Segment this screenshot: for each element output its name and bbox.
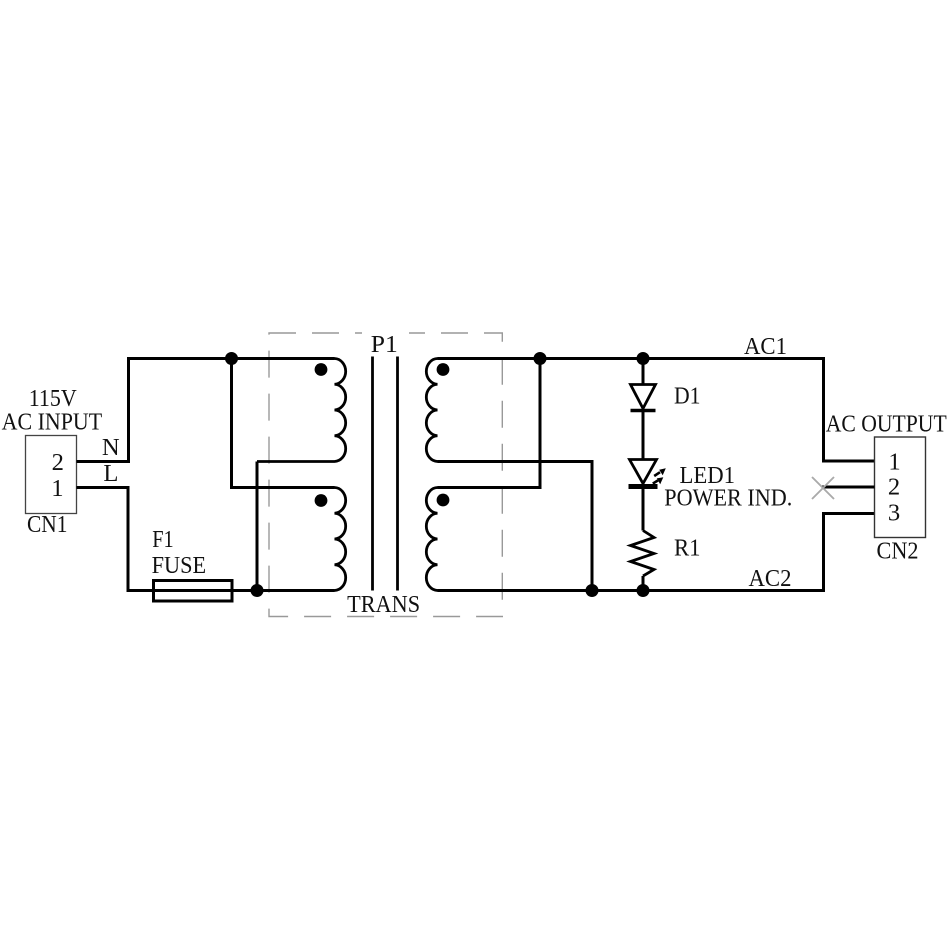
wire AC2 rail: lower secondary bottom lead to CN2 pin 3 <box>438 514 875 591</box>
diode D1 <box>631 385 656 411</box>
svg-text:P1: P1 <box>371 331 398 358</box>
svg-text:AC OUTPUT: AC OUTPUT <box>826 411 947 438</box>
wire: LED1 cathode to R1 <box>642 489 645 531</box>
wire: branch from N rail down to lower primary winding <box>232 359 335 488</box>
svg-text:N: N <box>102 434 120 461</box>
svg-text:CN1: CN1 <box>27 511 68 538</box>
wire: upper primary bottom lead down to fuse rail <box>256 462 259 591</box>
svg-text:AC INPUT: AC INPUT <box>2 409 103 436</box>
wire stub CN2 pin 2 (no connect) <box>822 486 875 489</box>
wire: D1 branch from AC1 <box>642 359 645 385</box>
svg-text:L: L <box>103 460 118 487</box>
junction R1 on AC2 <box>637 584 650 597</box>
phase dot lower primary <box>315 494 328 507</box>
phase dot upper secondary <box>437 363 450 376</box>
junction at fuse output <box>251 584 264 597</box>
wire N: CN1 pin 2 up to top rail and to primary winding <box>77 359 335 462</box>
wire: lower secondary top lead up to AC1 rail <box>438 359 541 488</box>
wire: R1 to AC2 rail <box>642 576 645 591</box>
junction D1 branch on AC1 <box>637 352 650 365</box>
transformer P1 lower secondary winding <box>426 488 437 591</box>
wire L: CN1 pin 1 down to fuse rail and to primary winding <box>77 488 335 591</box>
svg-text:2: 2 <box>888 474 900 501</box>
no-connect X mark on CN2 pin 2 <box>812 477 834 499</box>
transformer core line left <box>371 357 374 591</box>
transformer P1 dashed boundary box <box>269 326 502 617</box>
svg-text:F1: F1 <box>152 526 174 553</box>
connector CN1 <box>26 436 77 514</box>
svg-text:2: 2 <box>52 449 64 476</box>
junction lower secondary to AC1 <box>534 352 547 365</box>
svg-text:1: 1 <box>51 475 63 502</box>
wire AC1 rail: upper secondary top lead to CN2 pin 1 <box>438 359 875 462</box>
phase dot upper primary <box>315 363 328 376</box>
wire: D1 cathode to LED1 anode <box>642 411 645 460</box>
junction on N rail <box>225 352 238 365</box>
svg-text:1: 1 <box>888 449 900 476</box>
resistor R1 <box>631 531 655 577</box>
svg-text:D1: D1 <box>674 383 701 410</box>
svg-text:3: 3 <box>888 500 900 527</box>
transformer core line right <box>396 357 399 591</box>
svg-text:AC1: AC1 <box>744 333 787 360</box>
transformer P1 upper secondary winding <box>426 359 437 462</box>
svg-text:R1: R1 <box>674 534 701 561</box>
transformer P1 upper primary winding <box>257 359 346 462</box>
phase dot lower secondary <box>437 494 450 507</box>
svg-text:POWER IND.: POWER IND. <box>664 485 792 512</box>
svg-text:AC2: AC2 <box>749 565 792 592</box>
connector CN2 <box>875 437 926 538</box>
transformer P1 lower primary winding <box>335 488 346 591</box>
svg-text:TRANS: TRANS <box>347 591 420 618</box>
LED LED1 <box>629 460 666 490</box>
junction upper secondary on AC2 <box>586 584 599 597</box>
svg-text:CN2: CN2 <box>877 537 919 564</box>
wire: upper secondary bottom lead down to AC2 rail <box>438 462 593 591</box>
fuse F1 <box>154 581 233 602</box>
svg-text:FUSE: FUSE <box>152 552 207 579</box>
